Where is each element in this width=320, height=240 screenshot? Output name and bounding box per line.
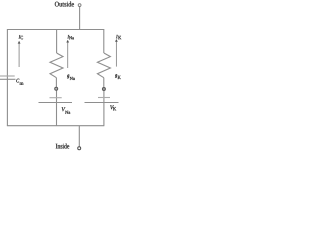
label gK [115, 74, 121, 79]
wire K branch mid [103, 78, 105, 88]
current arrow IC [18, 41, 21, 67]
label Cm [16, 79, 23, 85]
battery VNa long plate [39, 102, 73, 104]
wire right edge upper (K branch) [103, 30, 105, 54]
label VK [110, 105, 116, 110]
capacitor Cm bottom plate [0, 78, 16, 80]
label IK [116, 35, 121, 39]
node K branch circle [102, 88, 105, 91]
node Outside terminal stub [79, 7, 81, 30]
wire left edge [6, 30, 8, 126]
battery VK long plate [85, 102, 119, 104]
battery VNa short plate [50, 97, 62, 99]
node Outside terminal circle [78, 4, 81, 7]
resistor gNa zigzag [50, 53, 63, 78]
wire Na branch lower [56, 90, 58, 126]
wire Na branch upper [56, 30, 58, 54]
label INa [67, 35, 74, 39]
label gNa [67, 75, 75, 80]
resistor gK zigzag [97, 53, 110, 78]
label Outside [55, 2, 74, 7]
label VNa [62, 107, 71, 114]
label IC [19, 35, 23, 39]
node Na branch circle [55, 87, 58, 90]
wire K branch lower [103, 91, 105, 126]
current arrow IK [115, 39, 118, 67]
node Inside terminal circle [78, 147, 81, 150]
wire top rail [7, 29, 104, 31]
capacitor Cm top plate [0, 75, 15, 77]
node Inside terminal stub [78, 126, 80, 147]
current arrow INa [66, 40, 69, 68]
label Inside [56, 144, 69, 149]
wire bottom rail [7, 125, 104, 127]
wire Na branch mid [55, 78, 57, 87]
battery VK short plate [98, 97, 110, 99]
